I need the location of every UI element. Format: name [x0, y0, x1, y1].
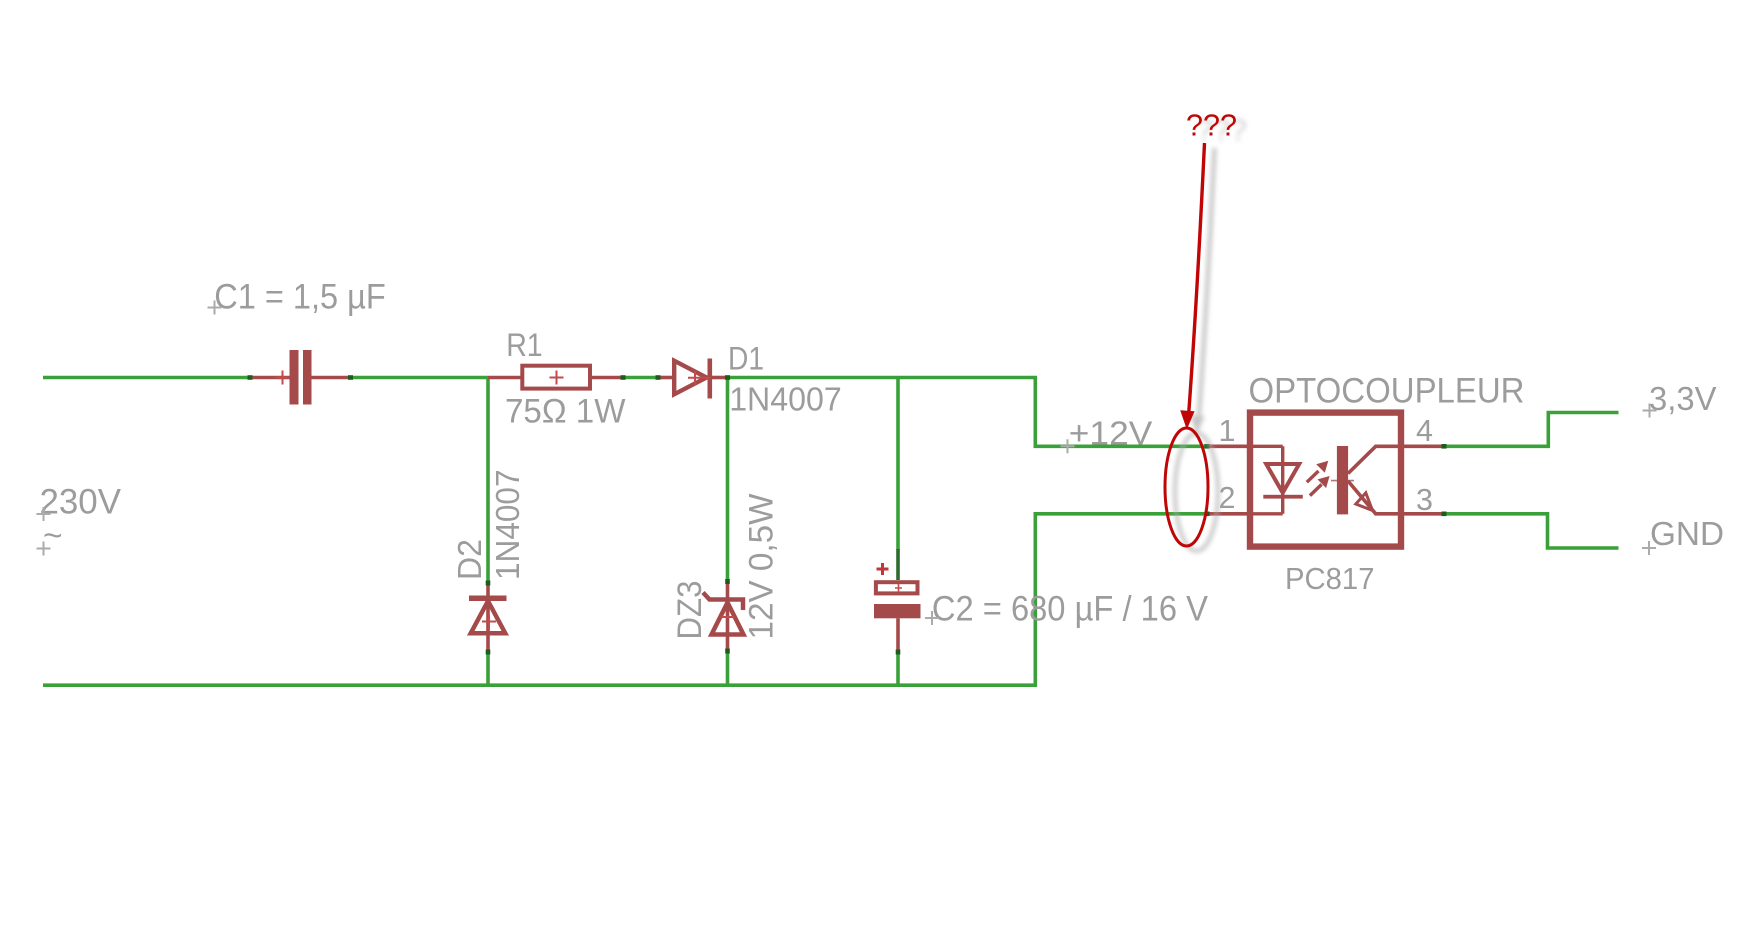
capacitor C1 — [248, 350, 354, 405]
wire: top rail left segment 230V to C1 — [43, 376, 250, 380]
svg-text:C2 = 680 µF / 16 V: C2 = 680 µF / 16 V — [932, 589, 1208, 629]
wire: opto pin4 to 3,3V label — [1444, 413, 1619, 447]
svg-text:2: 2 — [1219, 481, 1236, 515]
wire: DZ3 branch vertical bottom — [726, 651, 730, 685]
svg-text:D2: D2 — [452, 539, 489, 580]
light arrow 1 — [1307, 461, 1329, 482]
capacitor C2 (electrolytic) — [874, 549, 921, 655]
opto pin 2 stub — [1205, 512, 1248, 517]
LED D (inside opto) — [1263, 464, 1303, 499]
wire: bottom rail, up to opto pin2 level — [43, 514, 1207, 685]
transistor emitter line — [1348, 481, 1404, 514]
label C1 value — [214, 278, 385, 317]
wire: C2 branch vertical top — [896, 378, 900, 551]
transistor Q1 base bar — [1337, 446, 1348, 514]
svg-text:OPTOCOUPLEUR: OPTOCOUPLEUR — [1249, 371, 1525, 411]
svg-text:1N4007: 1N4007 — [489, 470, 526, 581]
cross ~ origin — [37, 542, 51, 556]
opto pin 1 stub — [1205, 444, 1248, 449]
svg-text:+12V: +12V — [1069, 416, 1153, 453]
wire: R1 out to D1 — [623, 376, 658, 380]
zener DZ3 — [703, 579, 744, 654]
opto pin 3 stub — [1404, 512, 1447, 517]
svg-text:230V: 230V — [40, 483, 122, 522]
wire: C1 to R1 junction — [351, 376, 489, 380]
wire: D2 branch vertical bottom — [486, 652, 490, 685]
annotation arrowhead — [1180, 410, 1194, 429]
transistor Q1 base cross (origin) — [1331, 480, 1354, 482]
diode D2 — [469, 581, 507, 655]
resistor R1 — [488, 366, 626, 389]
cross C1 label origin — [208, 301, 222, 315]
annotation shadows (gray) — [1175, 114, 1247, 552]
svg-text:4: 4 — [1416, 414, 1433, 448]
svg-text:1N4007: 1N4007 — [729, 382, 842, 419]
wire: opto pin3 to GND label — [1444, 514, 1619, 548]
transistor collector line — [1348, 446, 1404, 473]
wire: D2 branch vertical top — [486, 378, 490, 584]
diode D1 — [656, 359, 731, 399]
annotation arrow — [1189, 143, 1205, 412]
svg-text:3: 3 — [1416, 483, 1433, 517]
svg-text:???: ??? — [1186, 109, 1237, 143]
emitter arrowhead — [1356, 493, 1373, 511]
wire: C2 branch vertical bottom — [896, 652, 900, 685]
svg-text:PC817: PC817 — [1285, 562, 1375, 596]
svg-text:D1: D1 — [728, 341, 764, 377]
wire: D1 to corner, down to +12V level, to opto pin1 — [727, 378, 1208, 447]
op-amp U1: optocoupler box PC817 — [1250, 413, 1401, 547]
cross +12V origin — [1061, 439, 1075, 453]
svg-text:GND: GND — [1650, 516, 1724, 553]
LED anode/cathode internal wiring — [1250, 446, 1283, 514]
cross 230V origin — [37, 507, 51, 521]
svg-text:DZ3: DZ3 — [671, 581, 709, 640]
cross C2 label origin — [925, 611, 939, 625]
wire: DZ3 branch vertical top — [726, 378, 730, 582]
svg-text:12V 0,5W: 12V 0,5W — [743, 494, 781, 640]
annotation ellipse around pins 1-2 — [1165, 428, 1208, 546]
cross GND origin — [1642, 541, 1656, 555]
svg-text:C1 = 1,5 µF: C1 = 1,5 µF — [214, 278, 385, 317]
light arrow 2 — [1310, 476, 1330, 496]
opto pin 4 stub — [1404, 444, 1447, 449]
svg-text:R1: R1 — [506, 327, 543, 363]
cross 3,3V origin — [1643, 404, 1657, 418]
svg-text:3,3V: 3,3V — [1649, 380, 1717, 417]
svg-text:75Ω 1W: 75Ω 1W — [505, 393, 626, 431]
svg-text:1: 1 — [1219, 414, 1236, 448]
